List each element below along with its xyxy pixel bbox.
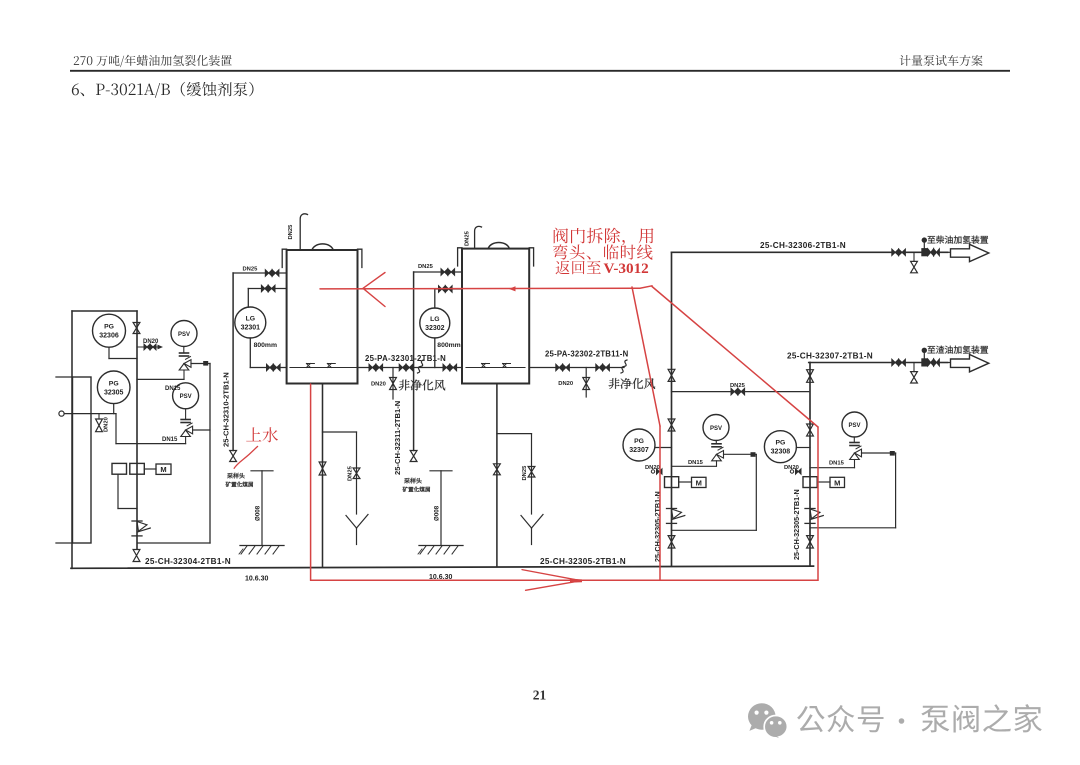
pipe stub left top bbox=[56, 376, 73, 378]
note tiny b1 bbox=[404, 478, 421, 484]
red bottom line bbox=[311, 579, 818, 581]
svg-text:DN25: DN25 bbox=[418, 264, 434, 270]
svg-text:800mm: 800mm bbox=[254, 342, 277, 349]
svg-text:DN25: DN25 bbox=[288, 224, 294, 240]
pipe relief b outlet bbox=[193, 429, 210, 431]
red small arrow tank2 bbox=[509, 286, 516, 291]
watermark text 2 bbox=[921, 704, 1042, 732]
red vertical B bbox=[817, 427, 819, 580]
pipe header1 to arrow bbox=[939, 251, 951, 253]
valve T2 outlet bbox=[494, 464, 501, 475]
svg-text:DN25: DN25 bbox=[730, 383, 746, 389]
svg-text:PG: PG bbox=[104, 324, 114, 331]
valve pair header1 bbox=[892, 249, 899, 256]
svg-text:DN25: DN25 bbox=[522, 465, 528, 481]
valve pair air mid bbox=[399, 364, 406, 371]
pipe T1 fill top bbox=[233, 272, 287, 274]
svg-text:25-CH-32311-2TB1-N: 25-CH-32311-2TB1-N bbox=[393, 401, 402, 475]
pipe relief b inlet bbox=[185, 437, 187, 444]
pipe DN15 train A bbox=[672, 465, 717, 467]
pipe relief B inlet bbox=[854, 460, 856, 468]
svg-text:DN15: DN15 bbox=[165, 386, 181, 392]
tank1 vent pipe bbox=[300, 214, 307, 250]
pipe crossover DN25 bbox=[672, 391, 809, 393]
pipe DN15 train B bbox=[810, 467, 855, 469]
pipe bottom main header bbox=[71, 566, 814, 568]
grade symbol 2 bbox=[430, 470, 452, 472]
svg-text:Ø008: Ø008 bbox=[434, 505, 441, 521]
pipe T2 fill top bbox=[414, 271, 462, 273]
pipe PG32306 drop bbox=[108, 347, 110, 358]
line break S2 bbox=[621, 360, 627, 373]
pipe header1 tee bbox=[913, 252, 915, 261]
pipe below pump bbox=[117, 474, 119, 508]
pipe PG32305 drop bbox=[113, 404, 115, 414]
label feijinghuafeng 1 bbox=[399, 380, 445, 391]
pipe PG32307 tie bbox=[655, 447, 672, 449]
valve pair air T1 bbox=[369, 364, 376, 371]
valve left riser bottom bbox=[133, 550, 140, 562]
pump shaft B bbox=[817, 481, 830, 483]
svg-text:PSV: PSV bbox=[178, 332, 190, 338]
relief valve PSV train A bbox=[703, 415, 729, 441]
valve on left riser bbox=[133, 323, 140, 334]
red arrow on bottom line bbox=[522, 570, 581, 591]
junction tick trainB bbox=[890, 451, 895, 456]
valve DN20 stub bbox=[144, 344, 150, 350]
pipe recirc B bottom bbox=[810, 527, 896, 529]
svg-text:32307: 32307 bbox=[629, 447, 649, 454]
valve small train B bbox=[796, 469, 802, 474]
tank1 level line bbox=[290, 367, 356, 369]
svg-text:21: 21 bbox=[533, 688, 547, 703]
equipment column (partial) bbox=[73, 377, 92, 543]
pipe T1 outlet riser bbox=[322, 384, 324, 567]
pipe T1 drain drop bbox=[356, 432, 358, 514]
valve riser A upper bbox=[668, 369, 675, 381]
grade symbol 1 bbox=[251, 470, 273, 472]
pump P-3021B box2 bbox=[130, 463, 145, 474]
pipe LG1 drop bbox=[249, 338, 251, 368]
pump shaft A bbox=[679, 481, 692, 483]
pipe relief a outlet bbox=[191, 363, 210, 365]
valve fill water T2 bbox=[410, 451, 417, 462]
valve fill water T1 bbox=[230, 451, 237, 462]
header rule bbox=[70, 70, 1010, 72]
relief works b bbox=[181, 419, 190, 421]
pipe LG2 drop bbox=[434, 338, 436, 368]
pipe below pump jog bbox=[118, 508, 137, 510]
valve train B bottom bbox=[807, 536, 814, 548]
valve DN25 T2 drain bbox=[528, 467, 535, 478]
svg-text:25-CH-32306-2TB1-N: 25-CH-32306-2TB1-N bbox=[760, 241, 846, 250]
svg-text:PG: PG bbox=[775, 440, 785, 447]
pipe header2 tee bbox=[913, 363, 915, 372]
offpage arrow to diesel unit bbox=[951, 244, 989, 261]
svg-text:32305: 32305 bbox=[104, 389, 124, 396]
pipe left vertical bbox=[71, 311, 73, 568]
valve riser B upper bbox=[807, 370, 814, 383]
svg-text:32306: 32306 bbox=[99, 333, 119, 340]
watermark text 1 bbox=[797, 705, 883, 732]
label to diesel hydrotreater bbox=[927, 236, 988, 244]
svg-text:PSV: PSV bbox=[180, 394, 192, 400]
tank1 right bracket bbox=[358, 249, 362, 267]
pipe LG1 bottom tie bbox=[250, 367, 286, 369]
valve T1 outlet bbox=[319, 462, 326, 475]
svg-text:V-3012: V-3012 bbox=[604, 260, 649, 277]
svg-text:DN25: DN25 bbox=[465, 230, 471, 246]
relief works train B bbox=[850, 442, 859, 444]
pipe riser train B bbox=[809, 363, 811, 567]
watermark wechat icon bbox=[748, 703, 787, 741]
pipe recirc B right bbox=[895, 453, 897, 528]
label to resid hydrotreater bbox=[927, 346, 988, 354]
svg-text:LG: LG bbox=[246, 316, 255, 323]
note tiny a1 bbox=[227, 473, 244, 479]
tank1 dome bbox=[312, 244, 333, 250]
pipe stub left bottom bbox=[56, 542, 73, 544]
svg-text:Ø008: Ø008 bbox=[255, 505, 262, 521]
tank2 left bracket bbox=[458, 248, 462, 266]
red diagonal A bbox=[632, 287, 660, 426]
pipe relief A outlet bbox=[724, 453, 757, 455]
svg-text:DN20: DN20 bbox=[558, 381, 573, 387]
svg-text:PSV: PSV bbox=[848, 423, 860, 429]
arrow DN20 stub bbox=[158, 345, 164, 350]
valve DN20 air T1 bbox=[390, 378, 397, 390]
pipe relief B stem bbox=[853, 437, 855, 443]
valve small train A bbox=[657, 469, 663, 474]
red arrowhead into tank1 bbox=[363, 273, 385, 307]
pressure gauge PG32308 bbox=[764, 431, 796, 463]
valve riser B lower bbox=[807, 424, 814, 436]
motor M train A bbox=[692, 477, 707, 487]
valve pair air T2 east a bbox=[556, 364, 563, 371]
note tiny a2 bbox=[226, 482, 253, 487]
pipe suction down bbox=[115, 414, 117, 444]
red instruction line3 bbox=[556, 261, 601, 275]
valve pair crossover bbox=[731, 388, 738, 395]
valve pair LG1 bottom bbox=[267, 364, 274, 371]
pump train B box bbox=[803, 477, 817, 488]
relief valve PSV b bbox=[173, 383, 199, 409]
valve DN25 T1 drain bbox=[353, 468, 360, 479]
pipe relief B outlet bbox=[862, 452, 896, 454]
svg-text:DN20: DN20 bbox=[371, 382, 386, 388]
pipe T2 drain drop bbox=[531, 434, 533, 514]
svg-text:LG: LG bbox=[430, 316, 439, 323]
pipe main left riser bbox=[136, 311, 138, 549]
pipe header2 to arrow bbox=[939, 362, 951, 364]
svg-text:DN25: DN25 bbox=[243, 267, 259, 273]
pressure gauge PG32306 bbox=[93, 314, 126, 347]
blind and valve header2 bbox=[922, 348, 927, 353]
red note shangshui bbox=[246, 427, 278, 442]
relief works train A bbox=[712, 443, 721, 445]
pipe relief A inlet bbox=[716, 461, 718, 467]
red instruction line1 bbox=[554, 228, 654, 246]
red vertical A bbox=[659, 426, 661, 580]
pipe DN20 stub bbox=[137, 346, 158, 348]
header right title bbox=[900, 55, 983, 66]
svg-text:25-CH-32305-2TB1-N: 25-CH-32305-2TB1-N bbox=[540, 557, 626, 566]
pipe relief collect vertical bbox=[209, 364, 211, 544]
pump shaft left bbox=[144, 468, 156, 470]
pipe top-left header bbox=[72, 310, 137, 312]
pipe T2 drain branch bbox=[497, 433, 532, 435]
svg-text:10.6.30: 10.6.30 bbox=[245, 576, 268, 583]
pipe PG32306 tie-in bbox=[109, 358, 137, 360]
tank2 internals x marks bbox=[482, 364, 511, 368]
svg-text:M: M bbox=[834, 478, 840, 487]
header left title bbox=[74, 55, 232, 67]
junction tick trainA bbox=[751, 452, 756, 457]
blind and valve header1 bbox=[922, 237, 927, 242]
pipe fill water riser T2 bbox=[413, 272, 415, 451]
svg-text:25-CH-32304-2TB1-N: 25-CH-32304-2TB1-N bbox=[145, 557, 231, 566]
pump P-3021A box1 bbox=[112, 463, 127, 474]
svg-text:32308: 32308 bbox=[771, 449, 791, 456]
tank2 vent pipe bbox=[475, 226, 482, 248]
pump train A box bbox=[665, 477, 679, 488]
pipe header 32307 bbox=[809, 362, 948, 364]
pipe header 32306 bbox=[672, 251, 948, 253]
pipe T2 return bbox=[435, 288, 462, 290]
valve riser A lower bbox=[668, 419, 675, 431]
junction tick a bbox=[203, 361, 208, 366]
section title bbox=[72, 82, 254, 98]
valve DN20 air T2 bbox=[583, 378, 590, 390]
label feijinghuafeng 2 bbox=[609, 378, 655, 389]
pipe air tee T1 bbox=[392, 368, 394, 400]
check valve train A bbox=[667, 508, 677, 510]
svg-text:25-CH-32307-2TB1-N: 25-CH-32307-2TB1-N bbox=[787, 352, 873, 361]
pipe relief a inlet tie bbox=[137, 378, 184, 380]
pipe recirc A bottom bbox=[672, 529, 757, 531]
pipe LG2 riser bbox=[434, 289, 436, 308]
red instruction line2 bbox=[553, 244, 653, 259]
tank2 dome bbox=[488, 242, 509, 248]
note tiny b2 bbox=[403, 487, 430, 492]
valve header1 bleed bbox=[911, 261, 918, 272]
svg-text:DN20: DN20 bbox=[104, 417, 110, 432]
svg-text:25-PA-32301-2TB1-N: 25-PA-32301-2TB1-N bbox=[365, 354, 446, 363]
pipe sample line bbox=[64, 413, 116, 415]
red vertical tank1 drop bbox=[310, 384, 312, 580]
svg-text:M: M bbox=[160, 465, 166, 474]
vessel tank2 bbox=[462, 249, 529, 384]
pipe T1 return bbox=[248, 288, 286, 290]
pipe air tee T2 bbox=[585, 368, 587, 398]
tank2 right bracket bbox=[529, 248, 533, 266]
level gauge LG32302 bbox=[420, 308, 450, 338]
svg-text:25-PA-32302-2TB11-N: 25-PA-32302-2TB11-N bbox=[545, 350, 629, 359]
funnel drain T2 bbox=[521, 516, 532, 529]
pipe riser train A bbox=[671, 252, 673, 566]
drain circle train A bbox=[651, 470, 654, 473]
pipe T2 outlet riser bbox=[496, 384, 498, 567]
pipe air header T1-T2 bbox=[358, 367, 463, 369]
pipe valve stub bbox=[98, 414, 100, 419]
valve pair air T2 bbox=[443, 364, 450, 371]
valve DN20 stub b bbox=[150, 344, 156, 350]
svg-text:DN15: DN15 bbox=[688, 460, 704, 466]
pipe relief a stem bbox=[183, 347, 185, 354]
svg-text:DN20: DN20 bbox=[143, 339, 159, 345]
pressure gauge PG32307 bbox=[623, 429, 655, 461]
drain circle train B bbox=[790, 470, 793, 473]
svg-text:DN15: DN15 bbox=[162, 437, 178, 443]
vessel tank1 bbox=[287, 250, 358, 384]
valve pair T2 fill bbox=[441, 269, 448, 276]
pipe relief collect bottom bbox=[138, 542, 210, 544]
pipe air header T2-east bbox=[529, 367, 624, 369]
motor M train B bbox=[830, 477, 845, 487]
red leader shangshui bbox=[234, 447, 257, 469]
tank2 level line bbox=[466, 367, 525, 369]
svg-text:PG: PG bbox=[634, 438, 644, 445]
valve pair air T2 east b bbox=[596, 364, 603, 371]
valve DN20 left drop bbox=[96, 419, 103, 432]
svg-text:DN15: DN15 bbox=[829, 460, 845, 466]
svg-text:PG: PG bbox=[109, 380, 119, 387]
svg-text:32301: 32301 bbox=[241, 325, 261, 332]
relief works a bbox=[180, 352, 189, 354]
check valve left riser bbox=[132, 520, 142, 522]
offpage arrow to resid unit bbox=[951, 355, 989, 372]
tank1 internals x marks bbox=[306, 364, 335, 368]
pipe LG1 riser bbox=[247, 289, 249, 308]
valve pair T2 return bbox=[439, 286, 446, 293]
svg-text:PSV: PSV bbox=[710, 426, 722, 432]
pipe recirc A right bbox=[755, 455, 757, 531]
svg-text:DN25: DN25 bbox=[348, 465, 354, 481]
valve header2 bleed bbox=[911, 372, 918, 383]
pipe relief b stem bbox=[185, 409, 187, 420]
valve pair T1 return bbox=[261, 285, 268, 292]
svg-text:32302: 32302 bbox=[425, 325, 445, 332]
relief valve PSV a bbox=[171, 321, 197, 347]
check valve train B bbox=[805, 508, 815, 510]
line break S1 bbox=[418, 360, 424, 373]
valve train A bottom bbox=[668, 536, 675, 548]
pipe relief A stem bbox=[715, 441, 717, 444]
pipe fill water riser T1 bbox=[232, 273, 234, 451]
valve pair T1 fill bbox=[265, 270, 272, 277]
svg-text:800mm: 800mm bbox=[437, 342, 460, 349]
pipe PG32308 tie bbox=[797, 447, 811, 449]
pressure gauge PG32305 bbox=[97, 371, 130, 404]
level gauge LG32301 bbox=[235, 307, 266, 338]
red diagonal B bbox=[652, 287, 818, 428]
red temp line main bbox=[320, 286, 652, 289]
relief valve PSV train B bbox=[842, 412, 867, 437]
pipe T1 drain branch bbox=[323, 431, 357, 433]
motor M left bbox=[156, 464, 171, 474]
sample port circle bbox=[59, 411, 64, 416]
tank1 left bracket bbox=[282, 249, 286, 267]
svg-text:25-CH-32310-2TB1-N: 25-CH-32310-2TB1-N bbox=[222, 372, 231, 447]
svg-text:25-CH-32305-2TB1-N: 25-CH-32305-2TB1-N bbox=[792, 489, 801, 560]
svg-text:M: M bbox=[696, 478, 702, 487]
funnel drain T1 bbox=[346, 516, 357, 529]
valve pair header2 bbox=[892, 359, 899, 366]
pipe suction header bbox=[116, 443, 186, 445]
pipe relief a inlet bbox=[183, 370, 185, 379]
